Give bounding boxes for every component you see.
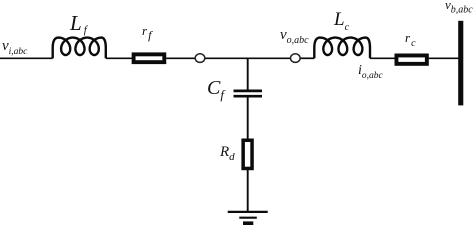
wire: node circle 1 to node circle 2 (through T junction) [205,57,291,59]
wire: C_f bottom plate down to R_d [247,98,249,141]
label C_f [207,77,224,103]
node circle 1 [195,54,205,63]
inductor L_f [53,38,106,59]
wire: L_f to r_f [106,57,132,59]
wire: r_c to bus bar [428,57,459,59]
wire: L_c to r_c [370,57,396,59]
label v_i,abc [2,38,27,57]
label v_b,abc [445,0,473,16]
label r_c [405,30,416,49]
wire: node circle 2 to L_c [300,57,314,59]
resistor r_f [134,54,165,62]
ground [228,212,268,223]
capacitor C_f [234,91,263,96]
resistor r_c [396,55,426,63]
label L_f [70,11,87,38]
resistor R_d [243,140,252,168]
label v_o,abc [280,27,309,46]
wire: input lead to L_f [0,57,53,59]
label R_d [220,144,235,163]
bus bar v_b,abc [458,21,463,106]
wire: r_f to node circle 1 [166,57,195,59]
wire: junction down to C_f top plate [247,58,249,89]
wire: R_d down to ground [247,169,249,213]
label L_c [334,9,349,33]
inductor L_c [314,38,370,59]
node circle 2 [291,54,301,63]
label r_f [142,23,151,43]
label i_o,abc [358,63,383,81]
